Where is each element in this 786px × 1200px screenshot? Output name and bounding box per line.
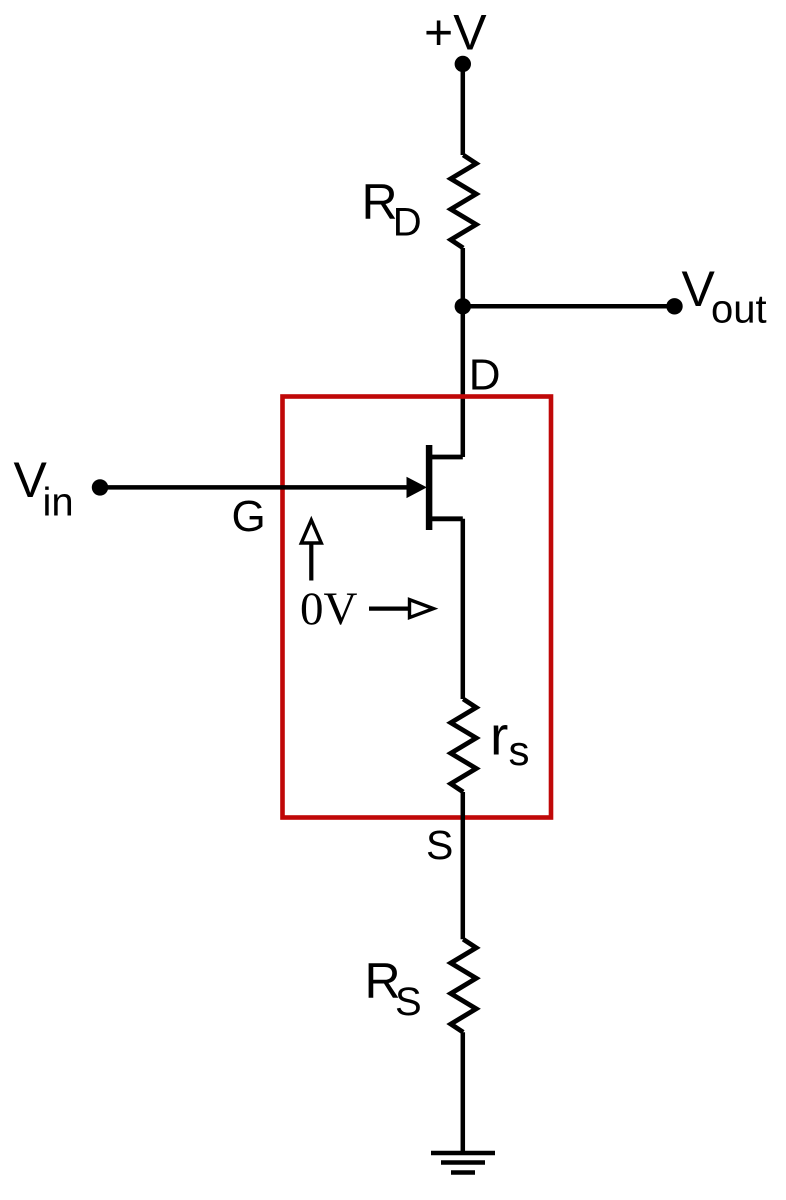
resistor rs: [451, 699, 476, 792]
label rs: [490, 705, 530, 775]
wire +V to RD: [461, 64, 466, 155]
resistor RS: [451, 939, 476, 1032]
label RD: [362, 174, 422, 245]
transistor Q1 drain lead: [429, 455, 463, 460]
svg-text:in: in: [43, 481, 74, 525]
wire Vin to gate: [100, 485, 410, 490]
label Vout: [682, 261, 767, 332]
svg-text:r: r: [490, 705, 508, 767]
right arrow shaft: [369, 606, 410, 610]
svg-text:D: D: [469, 351, 501, 400]
wire node to drain: [461, 306, 466, 457]
label RS: [365, 953, 422, 1024]
red highlight box: [283, 397, 552, 818]
wire node to Vout: [463, 304, 675, 309]
junction node dot: [455, 298, 471, 314]
up arrow shaft: [309, 542, 313, 581]
svg-text:s: s: [509, 727, 530, 774]
gate arrowhead: [407, 477, 427, 498]
label Vin: [14, 452, 74, 525]
up arrow head: [301, 520, 321, 543]
wire RD to output node: [461, 248, 466, 306]
svg-text:S: S: [395, 980, 422, 1024]
transistor Q1 source lead: [429, 516, 463, 521]
svg-text:0V: 0V: [300, 583, 358, 635]
wire RS to ground: [461, 1032, 466, 1153]
transistor Q1 gate bar: [426, 445, 433, 530]
terminal dot Vout: [666, 298, 682, 314]
wire source to rs: [461, 519, 466, 699]
terminal dot Vin: [92, 479, 108, 495]
svg-text:S: S: [426, 822, 453, 868]
wire rs to RS: [461, 792, 466, 939]
svg-text:+V: +V: [424, 5, 487, 61]
ground: [431, 1153, 495, 1173]
svg-text:D: D: [393, 201, 422, 245]
svg-text:out: out: [711, 288, 767, 332]
terminal dot +V: [455, 56, 471, 72]
svg-text:G: G: [232, 492, 266, 541]
resistor RD: [451, 155, 476, 248]
right arrow head: [410, 600, 434, 618]
